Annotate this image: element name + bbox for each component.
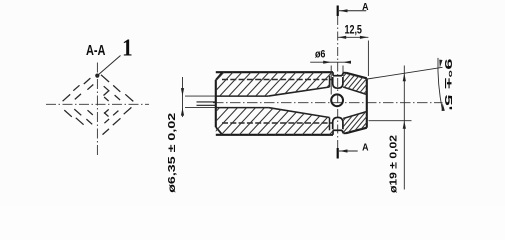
svg-text:A: A xyxy=(362,142,368,153)
hatching main body top xyxy=(182,70,388,98)
svg-text:A-A: A-A xyxy=(86,42,106,59)
cross hole circle xyxy=(331,94,343,106)
svg-text:1: 1 xyxy=(122,35,133,61)
internal bore, cone and cavity xyxy=(216,76,367,131)
svg-text:ø19 ± 0,02: ø19 ± 0,02 xyxy=(388,135,400,193)
hatching nose bottom xyxy=(316,109,413,135)
section mark A bottom xyxy=(338,142,369,158)
hatching main body bottom xyxy=(174,105,393,137)
centerline horizontal (left view) xyxy=(46,103,149,105)
svg-text:9°± 5': 9°± 5' xyxy=(442,59,453,111)
section label A-A xyxy=(86,42,106,59)
leader line with dot (part 1) xyxy=(95,56,120,78)
svg-text:12,5: 12,5 xyxy=(344,25,362,37)
dimension ø19 ±0.02 xyxy=(367,66,442,194)
nose outer profile xyxy=(342,73,367,134)
main axis centerline xyxy=(213,102,443,104)
cross hole far-wall arc top xyxy=(333,77,343,88)
centerline vertical (left view) xyxy=(96,63,98,156)
cross hole far-wall arc bottom xyxy=(333,117,343,129)
dimension ø6 cross hole xyxy=(310,49,351,95)
section line A-A through cross hole xyxy=(337,16,339,148)
dimension 12.5 xyxy=(338,25,369,77)
hatching nose top xyxy=(316,71,413,97)
section mark A top xyxy=(338,2,369,16)
dimension angle 9deg ±5min xyxy=(438,58,453,111)
svg-text:ø6: ø6 xyxy=(315,49,326,61)
item number 1 xyxy=(122,35,133,61)
main body outer profile xyxy=(216,72,342,135)
dimension ø6.35 ±0.02 bore xyxy=(166,77,216,193)
stub lines at left face xyxy=(197,102,216,105)
svg-text:ø6,35 ± 0,02: ø6,35 ± 0,02 xyxy=(166,113,178,193)
hidden lines of square broach xyxy=(222,80,333,124)
svg-text:A: A xyxy=(362,2,368,13)
square section of part 1 (scattered hatch dashes) xyxy=(63,75,134,135)
